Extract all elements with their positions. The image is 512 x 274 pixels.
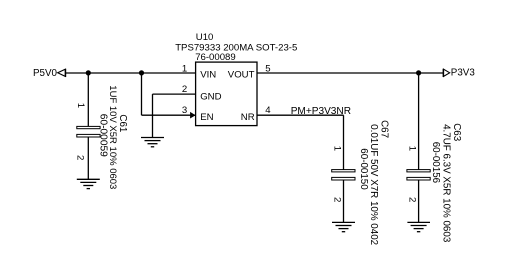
port P3V3	[443, 68, 475, 79]
wire main rail P5V0 to VIN pin 1	[66, 72, 196, 74]
svg-text:C63: C63	[451, 123, 462, 142]
IC U10 box	[175, 32, 297, 126]
wire C61 lower to ground	[87, 137, 89, 179]
svg-text:2: 2	[331, 197, 342, 202]
node junction P3V3/C63	[416, 70, 421, 75]
svg-text:P5V0: P5V0	[33, 68, 58, 79]
svg-text:5: 5	[265, 63, 270, 74]
svg-text:4: 4	[265, 105, 271, 116]
svg-text:NR: NR	[241, 112, 255, 123]
svg-text:1: 1	[406, 146, 417, 151]
svg-text:60-00156: 60-00156	[430, 142, 441, 184]
svg-text:U10: U10	[196, 32, 214, 43]
wire C67 lower to ground	[343, 180, 345, 223]
wire C63 lower to ground	[418, 180, 420, 223]
wire GND stub pin 2	[153, 93, 196, 95]
svg-text:2: 2	[406, 197, 417, 202]
svg-text:PM+P3V3NR: PM+P3V3NR	[291, 106, 351, 117]
wire NR pin 4 horizontal	[257, 114, 344, 116]
port P5V0	[33, 68, 66, 79]
svg-text:2: 2	[182, 84, 187, 95]
svg-text:C67: C67	[379, 120, 390, 138]
svg-text:GND: GND	[200, 92, 221, 103]
svg-text:76-00089: 76-00089	[195, 52, 236, 63]
ground under C63	[407, 222, 430, 231]
svg-text:P3V3: P3V3	[451, 68, 476, 79]
wire GND vertical to ground	[152, 94, 154, 137]
svg-text:1UF 10V X5R 10% 0603: 1UF 10V X5R 10% 0603	[107, 85, 118, 189]
wire VOUT rail pin 5 to P3V3	[257, 72, 443, 74]
ground under C67	[332, 222, 355, 231]
ground under C61	[77, 179, 100, 188]
svg-text:2: 2	[75, 155, 86, 160]
svg-text:1: 1	[182, 63, 187, 74]
svg-text:0.01UF 50V X7R 10% 0402: 0.01UF 50V X7R 10% 0402	[368, 124, 379, 245]
capacitor C63	[406, 123, 462, 243]
svg-text:4.7UF 6.3V X5R 10% 0603: 4.7UF 6.3V X5R 10% 0603	[440, 124, 451, 243]
svg-text:1: 1	[75, 103, 86, 108]
svg-text:60-00150: 60-00150	[358, 148, 369, 190]
node junction P5V0/EN	[139, 70, 144, 75]
capacitor C61	[75, 85, 128, 189]
svg-text:VOUT: VOUT	[228, 69, 255, 80]
svg-text:EN: EN	[200, 112, 213, 123]
svg-text:VIN: VIN	[200, 69, 216, 80]
svg-text:1: 1	[331, 146, 342, 151]
capacitor C67	[331, 120, 389, 245]
node junction P5V0/C61	[86, 70, 91, 75]
pin 3 EN input arrowhead	[190, 112, 196, 119]
wire C63 branch upper	[418, 73, 420, 170]
svg-text:3: 3	[182, 105, 187, 116]
wire C61 branch upper	[87, 73, 89, 126]
svg-text:TPS79333 200MA SOT-23-5: TPS79333 200MA SOT-23-5	[175, 42, 297, 53]
svg-text:60-00059: 60-00059	[97, 114, 108, 157]
ground under IC GND pin	[141, 138, 164, 147]
wire EN branch horizontal to pin 3	[142, 114, 196, 116]
wire NR vertical to C67	[343, 115, 345, 169]
svg-text:C61: C61	[117, 114, 128, 132]
wire EN branch vertical	[141, 73, 143, 115]
